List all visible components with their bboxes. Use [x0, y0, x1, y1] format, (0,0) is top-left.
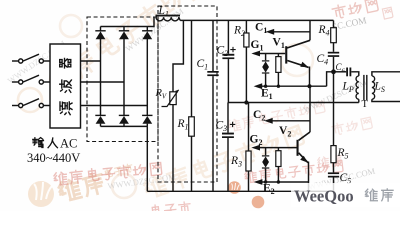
varistor Rv — [162, 90, 179, 107]
V1 base bar — [285, 46, 287, 63]
resistor R3 — [248, 103, 250, 152]
svg-text:WeeQoo: WeeQoo — [294, 187, 354, 206]
V1 collector terminal arrow C1 — [266, 29, 310, 35]
transformer core — [363, 75, 365, 101]
WeeQoo watermark box — [291, 183, 400, 207]
svg-text:340~440V: 340~440V — [27, 151, 80, 165]
E1 emitter rail — [254, 72, 334, 89]
rectifier diode top leg 1 — [100, 27, 102, 31]
bridge rectifier dashed box — [87, 17, 158, 142]
input phase 1 switch — [12, 54, 50, 63]
mid rail — [228, 102, 358, 104]
rectifier diode bottom leg 2 — [119, 115, 129, 124]
negative bus down — [146, 126, 148, 191]
V2 gate zeners — [262, 148, 269, 182]
leg 2 vertical — [123, 39, 125, 115]
varistor Rv lead — [173, 20, 183, 91]
watermark pink rows — [54, 162, 162, 186]
wire phase lines to bridge — [81, 60, 101, 62]
capacitor C5 — [328, 172, 339, 174]
input phase 2 switch — [12, 75, 50, 84]
top dc rail — [180, 19, 333, 21]
capacitor C1 — [212, 20, 214, 71]
V2 emitter — [299, 153, 309, 192]
rectifier diode top leg 3 — [146, 27, 148, 31]
transformer primary Lp — [356, 76, 359, 99]
V1 gate zeners — [262, 54, 269, 87]
V2 gate resistor — [276, 148, 281, 182]
svg-text:T: T — [362, 99, 369, 110]
leg 1 vertical — [100, 39, 102, 115]
V2 collector terminal arrow C2 — [264, 118, 310, 124]
IGBT V1 collector column — [309, 20, 311, 40]
capacitor C2 — [227, 20, 229, 53]
resistor R2 — [245, 20, 247, 33]
bottom rail — [147, 190, 333, 192]
V2 base bar — [297, 140, 299, 156]
dc filter dashed box — [158, 6, 217, 182]
V1 gate line — [251, 51, 285, 57]
input phase 3 switch — [12, 99, 50, 108]
V1 emitter — [287, 61, 309, 87]
transformer secondary Ls — [372, 76, 375, 99]
leg 3 vertical — [146, 39, 148, 115]
V1 gate resistor — [276, 54, 281, 87]
junction dots — [307, 84, 311, 88]
secondary output wires — [372, 72, 400, 76]
watermark tan diagonal tile bottom-center — [112, 124, 304, 199]
filter box text 滤波器 vertical — [60, 102, 72, 115]
inductor L1 — [156, 15, 181, 21]
resistor R4 — [333, 20, 335, 27]
rectifier diode bottom leg 1 — [95, 115, 105, 124]
watermark top-right pink + gray — [332, 0, 379, 20]
capacitor C4 — [328, 52, 339, 54]
rectifier diode top leg 2 — [123, 27, 125, 31]
svg-text:AC: AC — [60, 137, 77, 151]
capacitor C6 blocking — [334, 68, 359, 77]
filter box 滤波器 — [50, 44, 81, 128]
bridge top rail — [101, 17, 155, 26]
bridge bottom rail — [101, 125, 148, 127]
capacitor C3 — [227, 103, 229, 133]
watermark tan diagonal tile top-left — [18, 0, 208, 112]
V2 collector column — [309, 86, 311, 132]
V2 gate line — [251, 145, 296, 151]
resistor R1 — [191, 20, 193, 116]
snubber column to R5 — [333, 72, 335, 146]
rectifier diode bottom leg 3 — [142, 115, 152, 124]
E2 emitter rail — [254, 179, 309, 185]
resistor R5 — [331, 146, 336, 163]
watermark bottom-left logo + big chars — [28, 163, 133, 207]
